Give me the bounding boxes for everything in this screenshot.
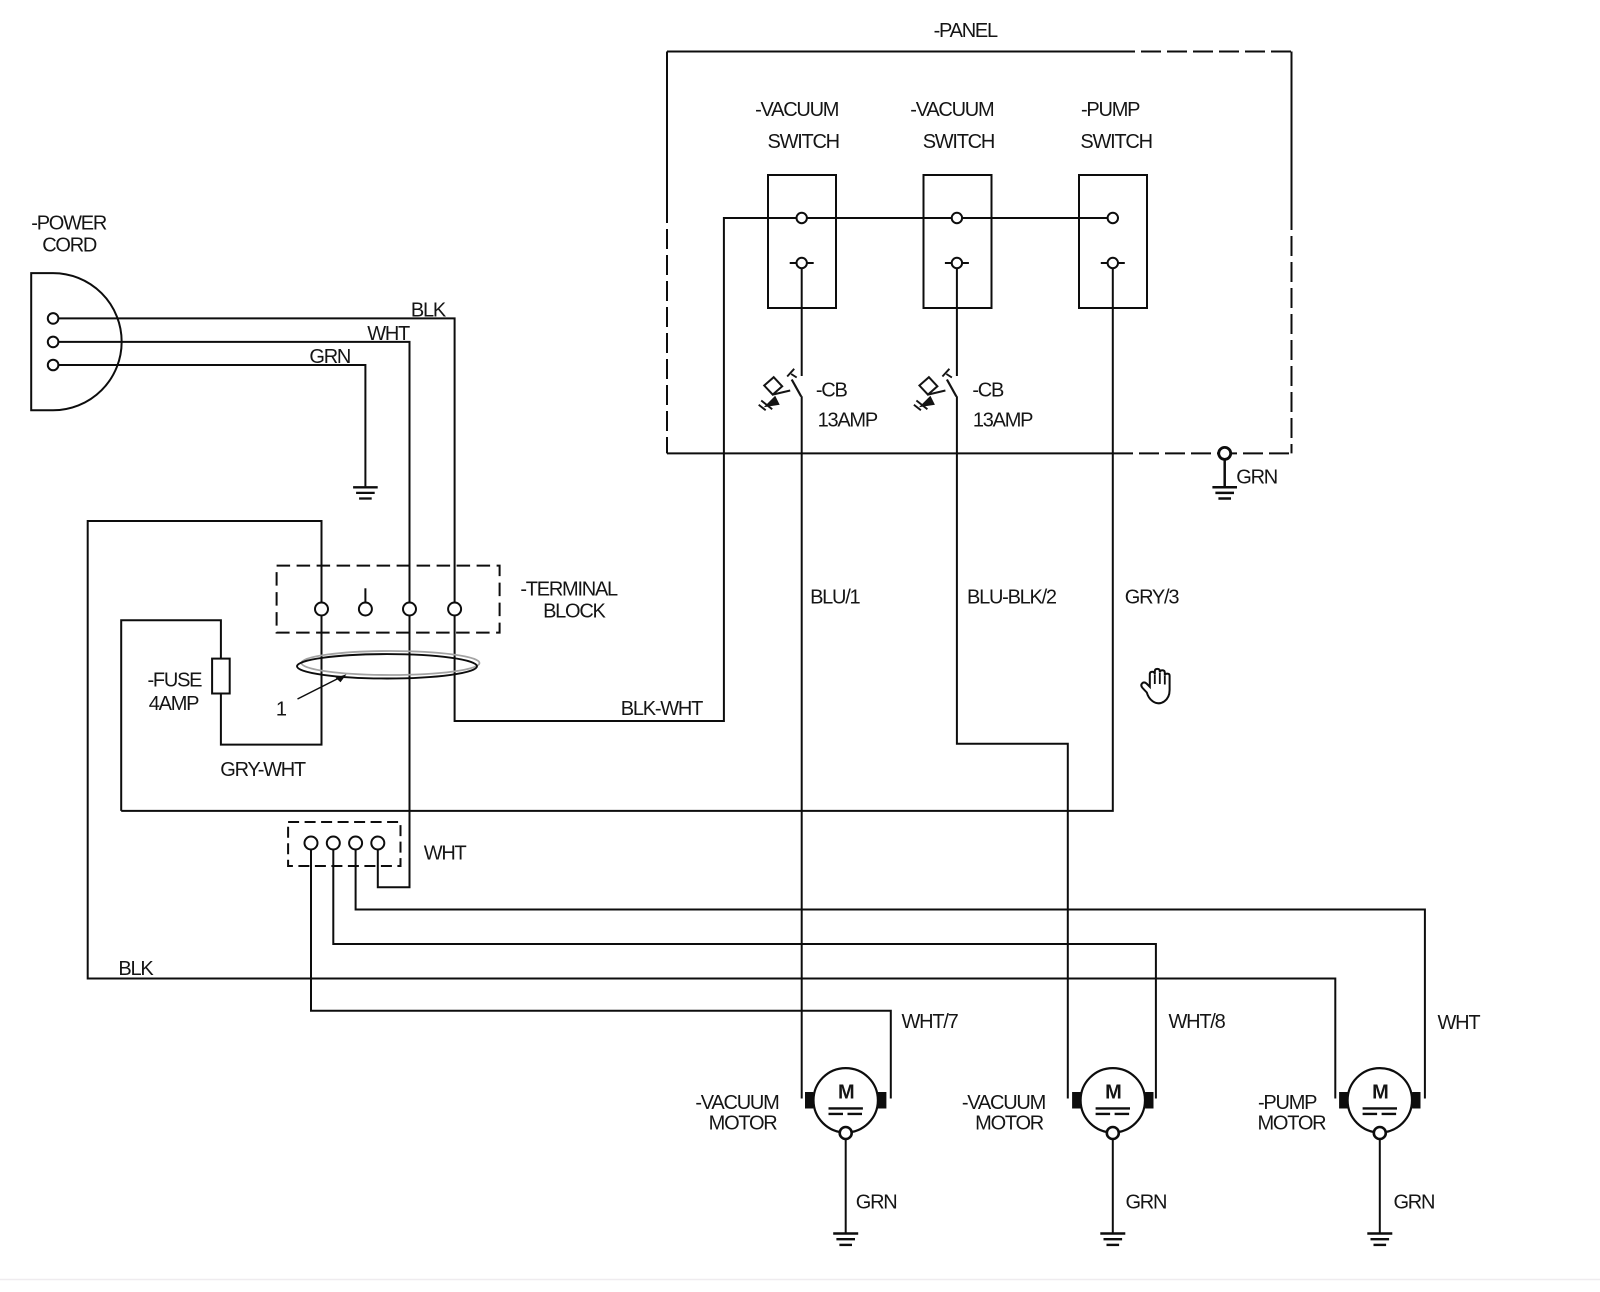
svg-text:-VACUUM: -VACUUM xyxy=(695,1092,779,1114)
WHT strip contact 4 xyxy=(371,837,384,850)
vacuum motor M2 xyxy=(1072,1068,1153,1245)
WHT strip contact 2 xyxy=(327,837,340,850)
svg-text:WHT: WHT xyxy=(367,323,410,345)
svg-text:-POWER: -POWER xyxy=(31,213,107,235)
svg-text:BLK-WHT: BLK-WHT xyxy=(621,698,703,720)
wire GRN stub above terminal block 2 xyxy=(364,588,366,602)
wire GRY: long horizontal run to pump switch xyxy=(121,268,1113,811)
pump motor M3 xyxy=(1339,1068,1420,1245)
panel GRN ground terminal xyxy=(1219,447,1231,459)
vacuum switch S1 body xyxy=(768,175,836,308)
terminal block contact 2 xyxy=(359,603,372,616)
svg-text:GRN: GRN xyxy=(309,346,350,368)
panel enclosure border (part solid part dashed) xyxy=(667,52,1292,454)
svg-text:13AMP: 13AMP xyxy=(818,410,878,432)
leader arrowhead xyxy=(336,674,347,682)
svg-text:-PUMP: -PUMP xyxy=(1258,1092,1317,1114)
faint page rule at bottom xyxy=(0,1279,1600,1281)
wire bundle ellipse (gray shadow) xyxy=(302,651,480,675)
svg-text:BLU-BLK/2: BLU-BLK/2 xyxy=(967,586,1057,608)
svg-text:-CB: -CB xyxy=(816,379,848,401)
svg-text:MOTOR: MOTOR xyxy=(1258,1113,1327,1135)
circuit breaker CB1 symbol xyxy=(759,369,802,411)
terminal block contact 4 xyxy=(448,603,461,616)
svg-text:M: M xyxy=(1372,1082,1388,1104)
svg-text:-PANEL: -PANEL xyxy=(934,20,998,42)
vacuum switch S2 body xyxy=(924,175,992,308)
vacuum switch 1 lower contact xyxy=(797,258,807,268)
svg-text:GRN: GRN xyxy=(1394,1192,1435,1214)
svg-text:GRY-WHT: GRY-WHT xyxy=(220,759,306,781)
svg-text:M: M xyxy=(1105,1082,1121,1104)
terminal block contact 1 xyxy=(315,603,328,616)
svg-text:-TERMINAL: -TERMINAL xyxy=(520,578,618,600)
wire GRN: cord to ground xyxy=(58,365,365,486)
WHT splice strip dashed outline xyxy=(288,822,400,866)
pump switch S3 body xyxy=(1079,175,1147,308)
terminal block contact 3 xyxy=(403,603,416,616)
power cord pin 1 xyxy=(48,313,59,324)
svg-text:-FUSE: -FUSE xyxy=(148,670,203,692)
svg-text:SWITCH: SWITCH xyxy=(923,131,994,153)
svg-text:GRN: GRN xyxy=(856,1192,897,1214)
terminal block TB1 dashed outline xyxy=(277,566,500,633)
svg-text:WHT: WHT xyxy=(424,843,467,865)
wire GRY-WHT: terminal block 1 down through fuse loop xyxy=(121,616,321,811)
svg-text:MOTOR: MOTOR xyxy=(975,1113,1044,1135)
wire WHT/7: strip terminal 1 to motor 1 right pin xyxy=(311,850,891,1099)
power cord pin 3 xyxy=(48,360,59,371)
svg-text:-CB: -CB xyxy=(972,379,1004,401)
wire bundle ellipse (black) xyxy=(297,654,477,678)
svg-text:1: 1 xyxy=(276,699,287,721)
vacuum switch 1 upper contact xyxy=(797,213,807,223)
wire WHT: cord to terminal block 3, down to WHT strip terminal 4 xyxy=(58,342,410,887)
wire BLU-BLK/2: vacuum switch 2 to vacuum motor 2 left pin (gap for CB) xyxy=(957,268,1068,1099)
wire BLU/1: vacuum switch 1 to vacuum motor 1 left pin (gap for CB) xyxy=(801,268,803,1099)
power cord P1 body xyxy=(31,273,121,410)
pump switch lower contact xyxy=(1108,258,1118,268)
svg-text:BLOCK: BLOCK xyxy=(543,600,606,622)
svg-text:4AMP: 4AMP xyxy=(149,693,199,715)
tick through vacuum switch 2 lower contact xyxy=(945,262,969,264)
wire: terminal block 1 up, left rail, BLK bottom run to pump motor left pin xyxy=(88,521,1336,1099)
circuit breaker CB2 symbol xyxy=(914,369,957,411)
svg-text:SWITCH: SWITCH xyxy=(1080,131,1151,153)
svg-text:CORD: CORD xyxy=(42,234,97,256)
svg-text:SWITCH: SWITCH xyxy=(768,131,839,153)
power cord pin 2 xyxy=(48,337,59,348)
fuse F1 4AMP body xyxy=(212,659,230,694)
svg-text:BLU/1: BLU/1 xyxy=(810,586,860,608)
svg-text:GRN: GRN xyxy=(1236,467,1277,489)
wire WHT: strip terminal 3 to pump motor right pin xyxy=(356,850,1425,1099)
svg-text:-VACUUM: -VACUUM xyxy=(962,1092,1046,1114)
WHT strip contact 1 xyxy=(305,837,318,850)
tick through pump switch lower contact xyxy=(1101,262,1125,264)
svg-text:-VACUUM: -VACUUM xyxy=(755,99,839,121)
svg-text:WHT/7: WHT/7 xyxy=(902,1011,959,1033)
svg-text:M: M xyxy=(838,1082,854,1104)
svg-text:MOTOR: MOTOR xyxy=(709,1113,778,1135)
vacuum switch 2 lower contact xyxy=(952,258,962,268)
svg-text:-PUMP: -PUMP xyxy=(1081,99,1140,121)
vacuum motor M1 xyxy=(805,1068,886,1245)
svg-text:BLK: BLK xyxy=(411,300,447,322)
vacuum switch 2 upper contact xyxy=(952,213,962,223)
ground symbol: power cord GRN xyxy=(353,487,378,498)
pump switch upper contact xyxy=(1108,213,1118,223)
svg-text:13AMP: 13AMP xyxy=(973,410,1033,432)
svg-text:WHT: WHT xyxy=(1438,1012,1481,1034)
wire WHT/8: strip terminal 2 to motor 2 right pin xyxy=(333,850,1156,1099)
svg-text:-VACUUM: -VACUUM xyxy=(910,99,994,121)
WHT strip contact 3 xyxy=(349,837,362,850)
svg-text:GRY/3: GRY/3 xyxy=(1125,586,1180,608)
svg-text:BLK: BLK xyxy=(118,958,154,980)
svg-text:WHT/8: WHT/8 xyxy=(1169,1011,1226,1033)
ground symbol: panel GRN xyxy=(1212,459,1237,498)
wire BLK: cord to terminal block 4, BLK-WHT to panel bus xyxy=(58,218,1113,721)
svg-text:GRN: GRN xyxy=(1126,1192,1167,1214)
leader line for balloon 1 xyxy=(298,677,343,700)
tick through vacuum switch 1 lower contact xyxy=(790,262,814,264)
hand cursor icon xyxy=(1141,669,1169,703)
